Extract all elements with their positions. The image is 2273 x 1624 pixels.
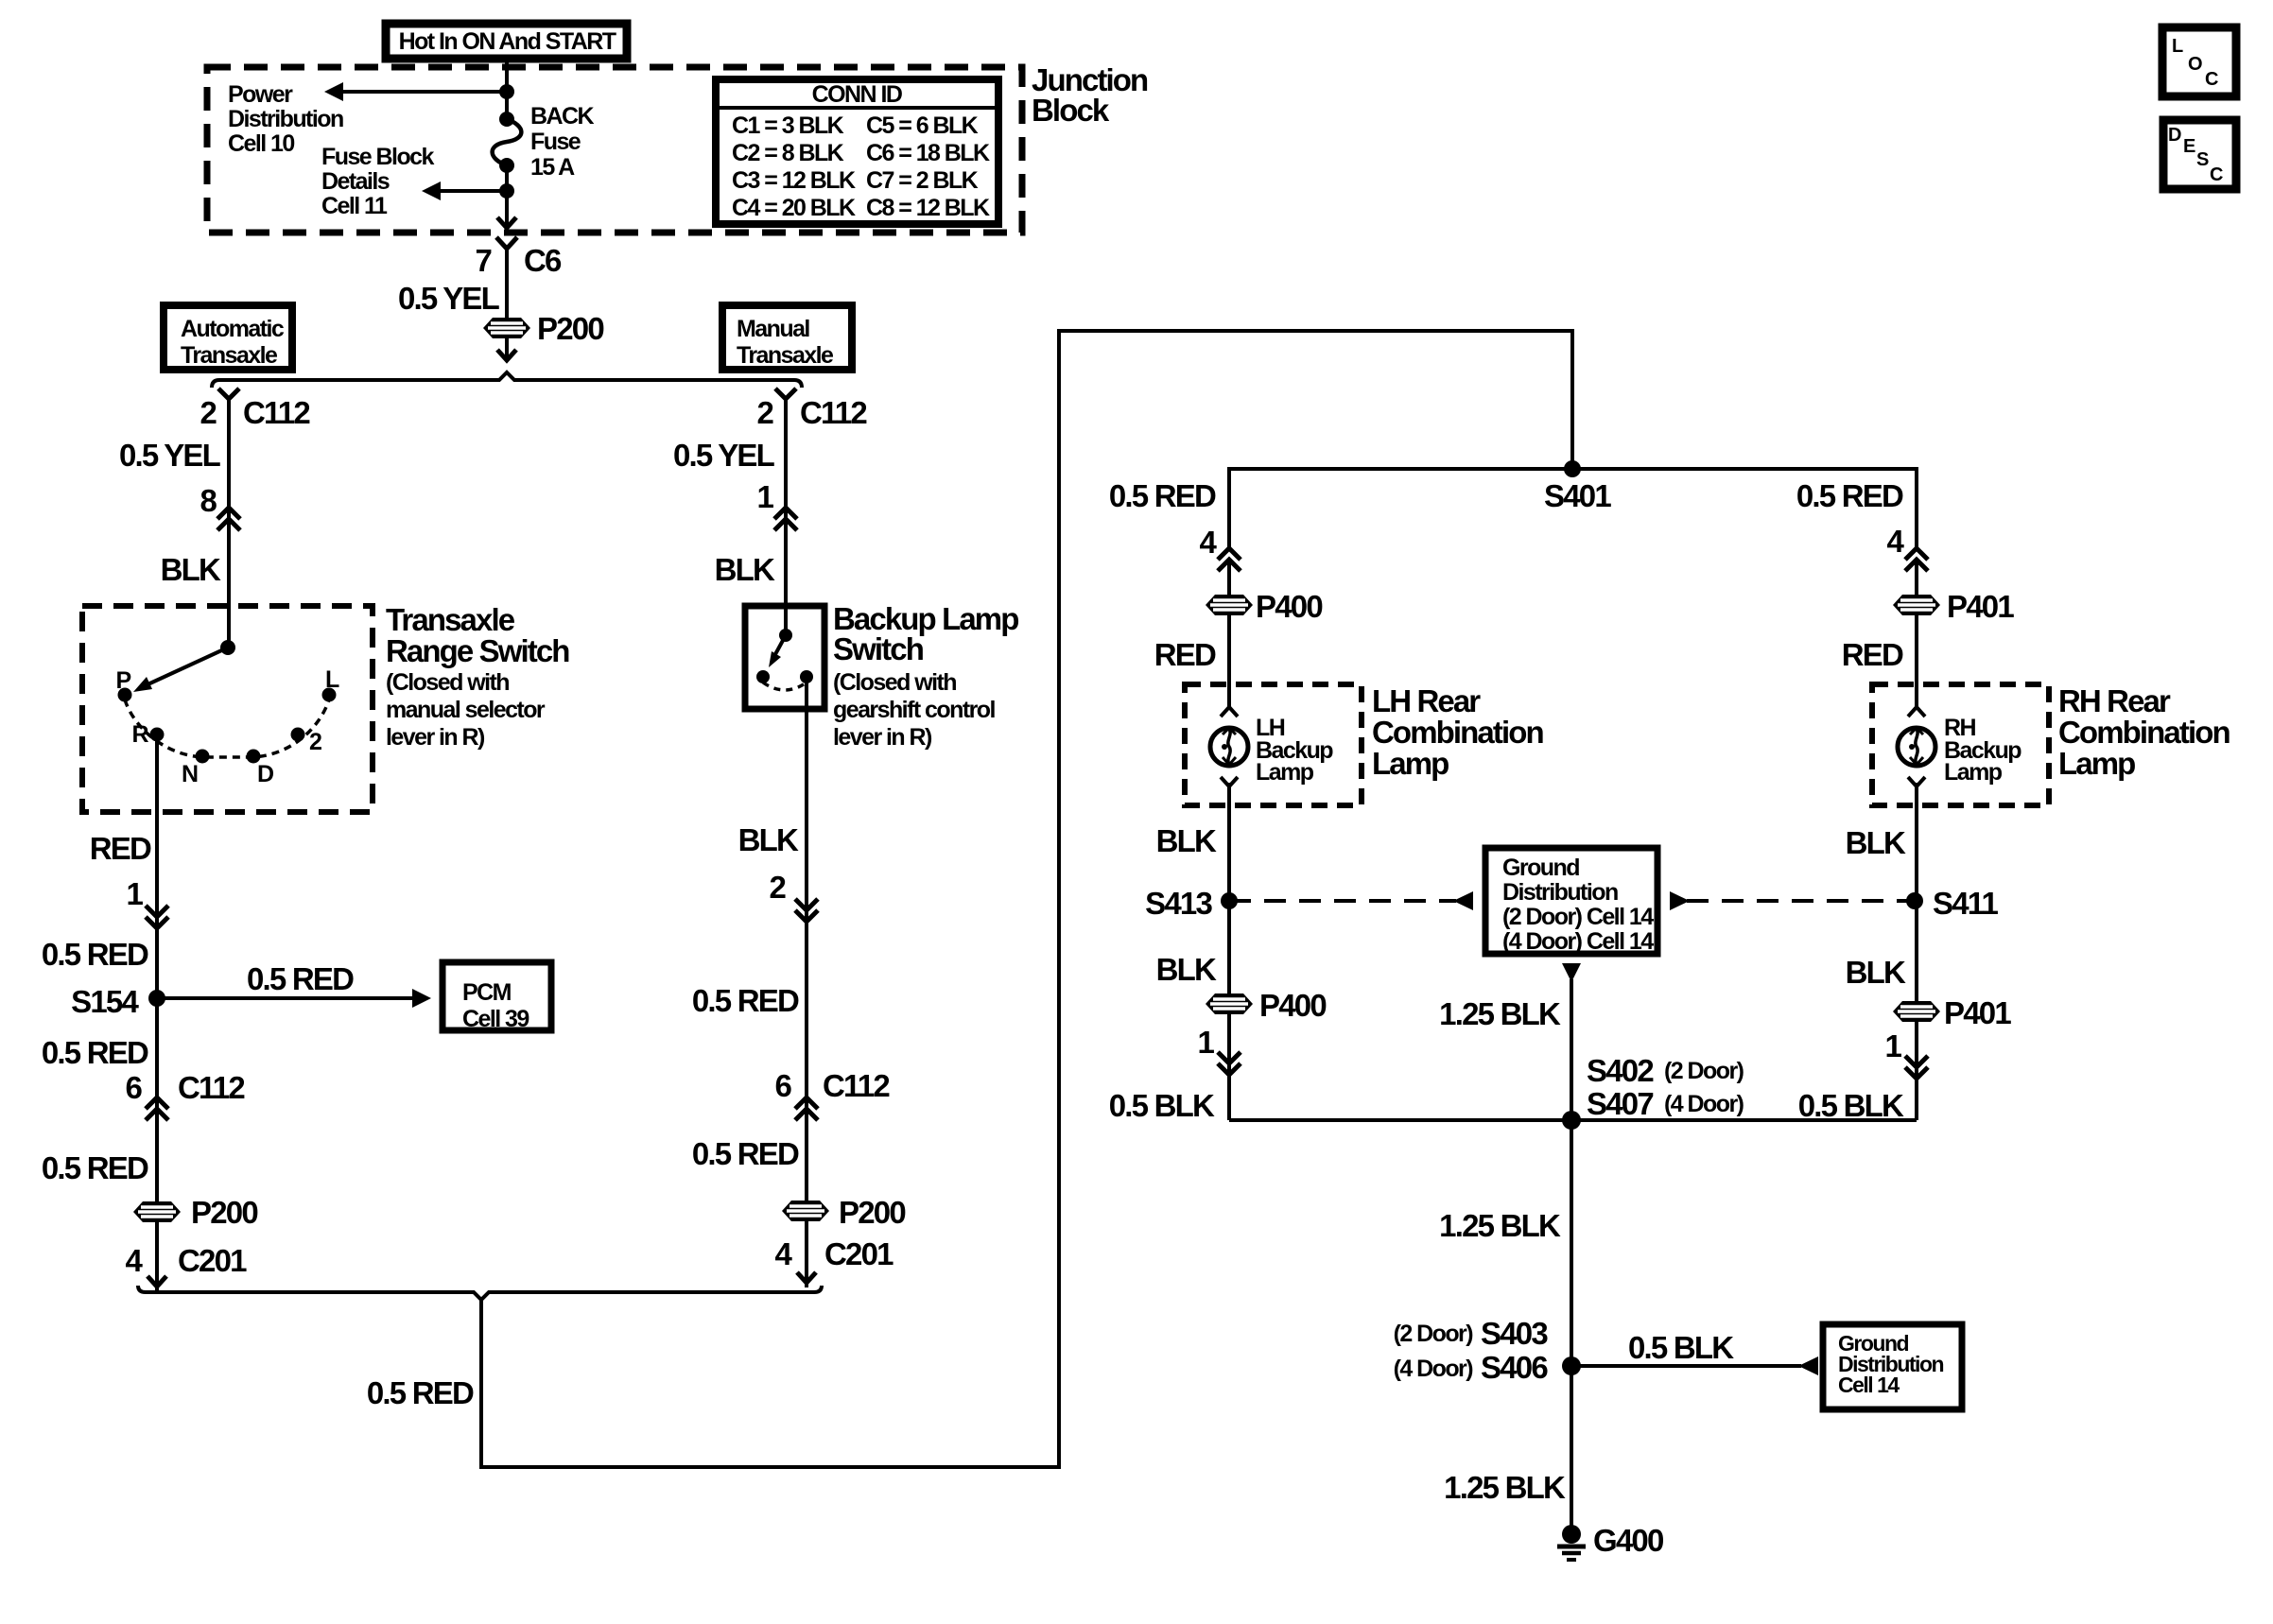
svg-text:C6 = 18 BLK: C6 = 18 BLK	[866, 140, 990, 166]
wire C112 to range switch (automatic)	[227, 398, 231, 648]
svg-text:C112: C112	[800, 395, 867, 430]
svg-text:BACK: BACK	[530, 103, 595, 130]
svg-text:P400: P400	[1256, 589, 1322, 624]
svg-text:(2 Door): (2 Door)	[1664, 1058, 1744, 1084]
svg-text:Cell 14: Cell 14	[1838, 1373, 1900, 1397]
svg-text:S407: S407	[1587, 1086, 1653, 1121]
svg-text:0.5 RED: 0.5 RED	[1796, 478, 1903, 513]
svg-text:P200: P200	[537, 311, 603, 346]
splice S411	[1906, 892, 1923, 909]
svg-text:Automatic: Automatic	[181, 316, 285, 342]
pin 2 / C112 labels (manual)	[756, 395, 867, 430]
svg-text:Distribution: Distribution	[1502, 879, 1618, 906]
wire from merge down, right, and up to lamp circuit	[481, 331, 1572, 1467]
svg-text:1.25 BLK: 1.25 BLK	[1439, 996, 1561, 1031]
pin 6 / C112 labels (manual)	[774, 1068, 890, 1103]
svg-text:1: 1	[756, 479, 773, 514]
ground trunk wire	[1570, 979, 1573, 1532]
inline connector chevrons (automatic lower, up)	[146, 1097, 168, 1120]
pass-through connector P401 (RH lower)	[1893, 1001, 1940, 1022]
svg-text:1: 1	[1884, 1028, 1901, 1063]
down arrow from ground distribution box	[1562, 963, 1581, 982]
svg-text:0.5 RED: 0.5 RED	[42, 937, 148, 972]
svg-text:Switch: Switch	[833, 631, 924, 666]
svg-text:0.5 YEL: 0.5 YEL	[398, 281, 500, 316]
CONN ID table	[716, 79, 998, 224]
svg-text:C201: C201	[178, 1243, 247, 1278]
svg-text:1.25 BLK: 1.25 BLK	[1444, 1470, 1566, 1505]
dashed reference wire S413 to ground distribution	[1229, 891, 1473, 910]
svg-text:P200: P200	[839, 1195, 905, 1230]
inline connector chevrons (automatic, up)	[217, 508, 240, 530]
range switch pivot node	[220, 640, 235, 655]
contact 2	[291, 728, 305, 742]
wire C112 to backup lamp switch	[784, 398, 788, 635]
Transaxle Range Switch dashed box	[82, 606, 373, 812]
svg-text:lever in R): lever in R)	[833, 724, 932, 751]
contact L	[322, 688, 337, 702]
pin 7 / C6 labels	[475, 243, 562, 278]
svg-text:BLK: BLK	[161, 552, 221, 587]
svg-text:1.25 BLK: 1.25 BLK	[1439, 1208, 1561, 1243]
svg-text:BLK: BLK	[738, 822, 799, 857]
svg-text:0.5 RED: 0.5 RED	[692, 983, 799, 1018]
svg-text:15 A: 15 A	[530, 154, 575, 181]
svg-text:Cell 39: Cell 39	[462, 1006, 529, 1032]
Manual Transaxle box	[722, 305, 852, 370]
svg-text:RED: RED	[1154, 637, 1216, 672]
svg-text:S402: S402	[1587, 1053, 1654, 1088]
svg-text:L: L	[325, 666, 339, 693]
svg-text:S406: S406	[1481, 1350, 1548, 1385]
pin 6 / C112 labels (automatic)	[125, 1070, 245, 1105]
fuse BACK 15A	[493, 112, 522, 173]
svg-text:Details: Details	[321, 168, 390, 195]
svg-text:BLK: BLK	[1846, 955, 1906, 990]
svg-text:0.5 BLK: 0.5 BLK	[1109, 1088, 1215, 1123]
svg-text:4: 4	[125, 1243, 143, 1278]
inline connector chevrons (manual, up)	[774, 508, 797, 530]
svg-text:2: 2	[309, 729, 321, 755]
node: ground bus junction dot	[1562, 1111, 1581, 1130]
svg-text:Transaxle: Transaxle	[181, 342, 278, 369]
svg-text:C7 = 2 BLK: C7 = 2 BLK	[866, 167, 979, 194]
svg-text:4: 4	[1199, 525, 1217, 560]
DESC legend box	[2163, 120, 2236, 189]
node: junction dot to fuse block details	[499, 183, 514, 199]
svg-text:RED: RED	[1842, 637, 1903, 672]
label Transaxle Range Switch	[386, 602, 569, 751]
backup lamp switch top contact	[779, 629, 792, 642]
inline connector chevrons (RH, down)	[1905, 1056, 1928, 1079]
wire C6 to P200	[505, 248, 509, 320]
RH backup lamp bulb	[1898, 728, 1935, 766]
svg-text:RED: RED	[90, 831, 151, 866]
svg-text:0.5 RED: 0.5 RED	[42, 1150, 148, 1185]
splice S403 / S406 labels	[1394, 1316, 1549, 1385]
down arrow at junction block exit	[497, 217, 516, 228]
merge brace joining both transaxle branches	[138, 1286, 822, 1300]
label Fuse Block Details Cell 11	[321, 144, 435, 219]
svg-text:Combination: Combination	[2058, 715, 2230, 750]
svg-text:Cell 11: Cell 11	[321, 193, 388, 219]
svg-text:L: L	[2172, 36, 2183, 57]
inline connector chevrons (LH, up)	[1218, 548, 1241, 571]
LH backup lamp bulb	[1210, 728, 1248, 766]
svg-text:2: 2	[200, 395, 217, 430]
ground G400	[1557, 1525, 1586, 1560]
lamp feed chevron (LH)	[1221, 707, 1238, 717]
svg-text:Lamp: Lamp	[1256, 759, 1314, 786]
svg-text:C: C	[2205, 69, 2218, 90]
svg-text:(4 Door) Cell 14: (4 Door) Cell 14	[1502, 928, 1654, 955]
wire RH down to bus	[1915, 560, 1918, 710]
svg-text:Lamp: Lamp	[2058, 746, 2135, 781]
svg-text:C112: C112	[823, 1068, 890, 1103]
svg-text:2: 2	[756, 395, 773, 430]
splice S154	[148, 990, 165, 1007]
svg-text:Lamp: Lamp	[1944, 759, 2003, 786]
svg-text:6: 6	[774, 1068, 791, 1103]
node S401 splice	[1564, 460, 1581, 477]
label RH Backup Lamp	[1944, 715, 2021, 786]
svg-text:C2 = 8 BLK: C2 = 8 BLK	[732, 140, 844, 166]
contact D	[247, 750, 261, 764]
svg-text:Power: Power	[228, 81, 293, 108]
Ground Distribution Cell 14 box (lower right)	[1823, 1324, 1962, 1409]
svg-text:S154: S154	[71, 984, 139, 1019]
inline connector chevrons (automatic, down)	[146, 906, 168, 928]
svg-text:C112: C112	[243, 395, 310, 430]
dashed switch arc	[763, 682, 807, 690]
svg-text:BLK: BLK	[1156, 823, 1217, 858]
ground bus between LH and RH lamps	[1229, 1118, 1917, 1122]
label BACK Fuse 15 A	[530, 103, 595, 181]
inline connector chevrons (RH, up)	[1905, 548, 1928, 571]
lamp return chevron (LH)	[1221, 777, 1238, 786]
wire P200 to split	[505, 338, 509, 357]
svg-text:0.5 YEL: 0.5 YEL	[119, 438, 221, 473]
svg-text:S411: S411	[1933, 886, 1998, 921]
svg-text:Manual: Manual	[737, 316, 809, 342]
svg-text:P400: P400	[1259, 988, 1326, 1023]
svg-text:Block: Block	[1032, 93, 1110, 128]
svg-text:4: 4	[1886, 524, 1904, 559]
svg-text:G400: G400	[1593, 1523, 1663, 1558]
svg-text:(2 Door): (2 Door)	[1394, 1321, 1474, 1347]
wire arrow to lower ground distribution box	[1571, 1356, 1818, 1375]
Automatic Transaxle box	[164, 305, 292, 370]
svg-text:S413: S413	[1145, 886, 1212, 921]
connector C112 Y symbol (automatic)	[218, 389, 239, 399]
Hot In ON And START box	[386, 24, 627, 59]
PCM box	[442, 962, 551, 1032]
contact P	[118, 688, 132, 702]
backup lamp switch wiper arrow	[769, 635, 786, 667]
svg-text:Combination: Combination	[1372, 715, 1543, 750]
svg-text:0.5 RED: 0.5 RED	[42, 1035, 148, 1070]
label LH Backup Lamp	[1256, 715, 1333, 786]
svg-text:P: P	[115, 667, 130, 694]
svg-text:(Closed with: (Closed with	[386, 669, 509, 696]
Backup Lamp Switch box	[745, 606, 824, 709]
pin 4 / C201 labels (automatic)	[125, 1243, 247, 1278]
backup lamp switch left contact	[756, 670, 770, 683]
svg-text:Cell 10: Cell 10	[228, 130, 294, 157]
down arrow above split brace	[497, 350, 516, 360]
svg-text:C201: C201	[824, 1236, 894, 1271]
range switch wiper arm arrow to P	[133, 648, 228, 692]
pin 4 / C201 labels (manual)	[774, 1236, 894, 1271]
svg-text:N: N	[182, 761, 198, 787]
svg-text:0.5 BLK: 0.5 BLK	[1798, 1088, 1904, 1123]
pass-through connector P200 (automatic)	[133, 1201, 181, 1222]
svg-text:C5 = 6 BLK: C5 = 6 BLK	[866, 112, 979, 139]
svg-text:(2 Door) Cell 14: (2 Door) Cell 14	[1502, 904, 1654, 930]
svg-text:Transaxle: Transaxle	[737, 342, 834, 369]
wire arrow to Power Distribution	[324, 82, 507, 101]
splice S413	[1221, 892, 1238, 909]
svg-text:lever in R): lever in R)	[386, 724, 485, 751]
down arrow to merge brace (automatic)	[147, 1276, 166, 1287]
svg-text:0.5 BLK: 0.5 BLK	[1628, 1330, 1734, 1365]
svg-text:C4 = 20 BLK: C4 = 20 BLK	[732, 195, 856, 221]
svg-text:1: 1	[1197, 1025, 1214, 1060]
svg-text:4: 4	[774, 1236, 792, 1271]
svg-text:Range Switch: Range Switch	[386, 633, 569, 668]
backup lamp switch right contact	[800, 670, 813, 683]
pass-through connector P400 (LH lower)	[1206, 993, 1253, 1014]
lamp feed chevron (RH)	[1908, 707, 1925, 717]
Junction Block dashed box	[207, 67, 1022, 233]
svg-text:(4 Door): (4 Door)	[1664, 1091, 1744, 1117]
svg-text:O: O	[2188, 54, 2203, 75]
label LH Rear Combination Lamp	[1372, 683, 1543, 781]
wire bus S401 to LH and RH lamps	[1229, 469, 1917, 548]
LOC legend box	[2162, 27, 2236, 96]
Junction Block label	[1032, 62, 1148, 128]
svg-text:gearshift control: gearshift control	[833, 697, 995, 723]
pass-through connector P200 (manual)	[782, 1201, 829, 1221]
down arrow to merge brace (manual)	[797, 1272, 816, 1283]
svg-text:D: D	[257, 761, 273, 787]
svg-text:0.5 RED: 0.5 RED	[367, 1375, 474, 1410]
svg-text:P401: P401	[1947, 589, 2014, 624]
pass-through connector P401 (RH upper)	[1893, 595, 1940, 615]
svg-text:PCM: PCM	[462, 979, 512, 1006]
label Backup Lamp Switch	[833, 601, 1018, 751]
svg-text:C6: C6	[524, 243, 562, 278]
svg-text:C: C	[2210, 164, 2223, 185]
wire from switch down to merge brace (manual)	[805, 682, 808, 1287]
svg-text:LH Rear: LH Rear	[1372, 683, 1481, 718]
svg-text:Hot In ON And START: Hot In ON And START	[399, 28, 616, 55]
svg-text:Transaxle: Transaxle	[386, 602, 515, 637]
svg-text:C112: C112	[178, 1070, 245, 1105]
svg-text:BLK: BLK	[715, 552, 775, 587]
label RH Rear Combination Lamp	[2058, 683, 2230, 781]
wire arrow S154 to PCM	[157, 989, 431, 1008]
svg-text:CONN ID: CONN ID	[812, 81, 902, 108]
svg-text:S: S	[2196, 149, 2209, 170]
LH Rear Combination Lamp dashed box	[1185, 684, 1362, 805]
svg-text:C8 = 12 BLK: C8 = 12 BLK	[866, 195, 990, 221]
svg-text:1: 1	[126, 876, 143, 911]
svg-text:C1 = 3 BLK: C1 = 3 BLK	[732, 112, 844, 139]
inline connector chevrons (manual, down)	[795, 899, 818, 922]
svg-text:manual selector: manual selector	[386, 697, 546, 723]
Ground Distribution reference box (center)	[1485, 848, 1657, 955]
svg-text:Distribution: Distribution	[228, 106, 343, 132]
svg-text:E: E	[2183, 136, 2195, 157]
svg-text:8: 8	[200, 483, 217, 518]
pass-through connector P200	[483, 318, 530, 338]
node S403/S406 splice dot	[1562, 1356, 1581, 1375]
split brace to Automatic / Manual branches	[212, 372, 802, 388]
svg-text:6: 6	[125, 1070, 142, 1105]
svg-text:7: 7	[475, 243, 491, 278]
wire from contact R down to S154	[155, 739, 159, 1292]
inline connector chevrons (manual lower, up)	[795, 1097, 818, 1120]
contact R	[150, 728, 165, 742]
svg-text:2: 2	[769, 870, 786, 905]
node: junction dot to power distribution	[499, 84, 514, 99]
svg-text:C3 = 12 BLK: C3 = 12 BLK	[732, 167, 856, 194]
svg-text:Lamp: Lamp	[1372, 746, 1449, 781]
svg-text:0.5 RED: 0.5 RED	[247, 961, 354, 996]
connector C112 Y symbol (manual)	[775, 389, 796, 399]
svg-text:RH Rear: RH Rear	[2058, 683, 2171, 718]
svg-text:(Closed with: (Closed with	[833, 669, 956, 696]
contact N	[196, 750, 210, 764]
wire below fuse	[505, 165, 509, 227]
svg-text:Ground: Ground	[1502, 855, 1579, 881]
inline connector chevrons (LH, down)	[1218, 1052, 1241, 1075]
pass-through connector P400 (LH upper)	[1206, 595, 1253, 615]
connector C6 Y symbol	[496, 237, 517, 249]
pin 2 / C112 labels (automatic)	[200, 395, 310, 430]
svg-text:BLK: BLK	[1846, 825, 1906, 860]
dashed contact arc P-R-N-D-2-L	[125, 700, 329, 757]
wire from Hot In box down into junction block	[505, 55, 509, 119]
lamp return chevron (RH)	[1908, 777, 1925, 786]
wire LH down to bus	[1227, 560, 1231, 710]
svg-text:D: D	[2168, 125, 2181, 146]
RH Rear Combination Lamp dashed box	[1872, 684, 2049, 805]
svg-text:Fuse Block: Fuse Block	[321, 144, 435, 170]
svg-text:(4 Door): (4 Door)	[1394, 1356, 1474, 1382]
svg-text:S403: S403	[1481, 1316, 1548, 1351]
svg-text:P401: P401	[1944, 995, 2011, 1030]
splice S402 / S407 labels	[1587, 1053, 1744, 1121]
wire arrow to Fuse Block Details	[422, 181, 507, 200]
svg-text:S401: S401	[1544, 478, 1611, 513]
svg-text:Fuse: Fuse	[530, 129, 581, 155]
svg-text:0.5 RED: 0.5 RED	[692, 1136, 799, 1171]
label Power Distribution Cell 10	[228, 81, 343, 157]
svg-text:BLK: BLK	[1156, 952, 1217, 987]
svg-text:P200: P200	[191, 1195, 257, 1230]
dashed reference wire ground distribution to S411	[1670, 891, 1915, 910]
svg-text:0.5 RED: 0.5 RED	[1109, 478, 1216, 513]
svg-text:0.5 YEL: 0.5 YEL	[673, 438, 775, 473]
